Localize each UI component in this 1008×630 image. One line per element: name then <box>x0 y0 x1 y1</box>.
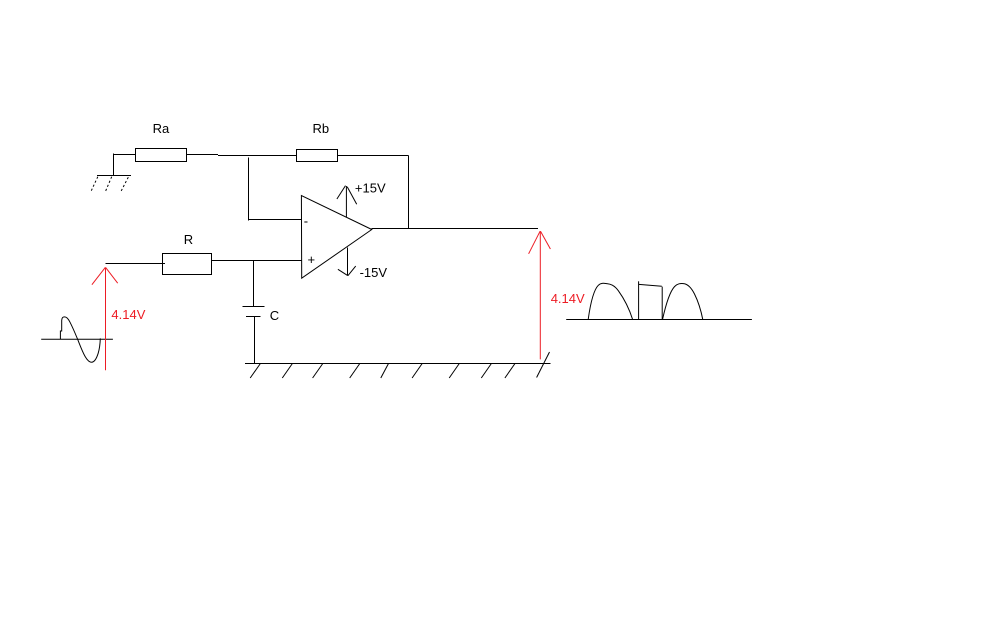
svg-text:R: R <box>184 232 193 247</box>
svg-text:C: C <box>270 308 279 323</box>
svg-text:-: - <box>304 214 308 229</box>
svg-text:4.14V: 4.14V <box>551 291 585 306</box>
svg-text:+15V: +15V <box>355 180 386 195</box>
svg-text:-15V: -15V <box>360 265 388 280</box>
svg-text:+: + <box>308 252 316 267</box>
svg-text:4.14V: 4.14V <box>111 307 145 322</box>
svg-text:Ra: Ra <box>153 121 170 136</box>
svg-text:Rb: Rb <box>313 121 330 136</box>
